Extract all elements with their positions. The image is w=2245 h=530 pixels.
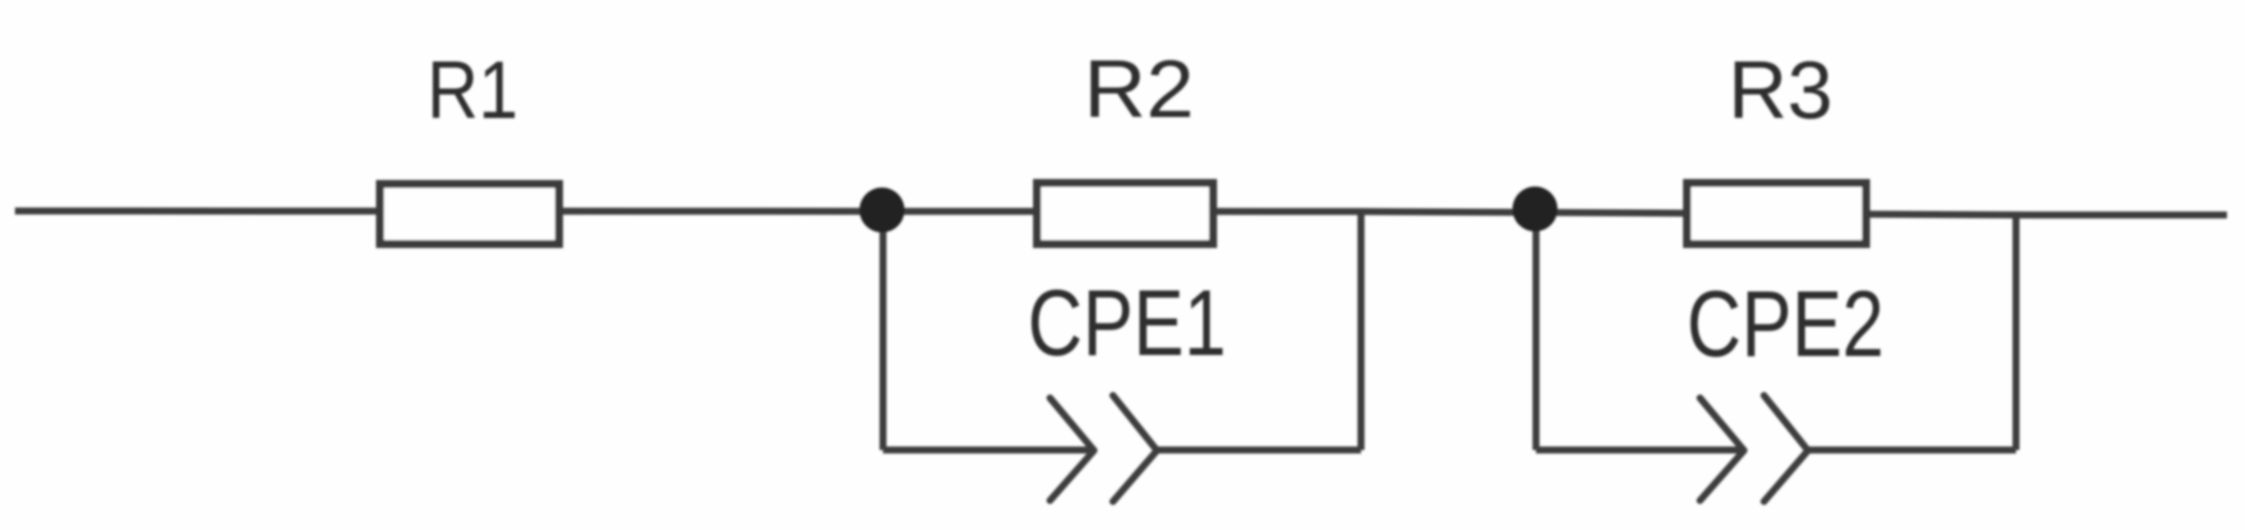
node A junction dot [860,188,905,233]
CPE CPE1 chevron 2 [1113,396,1157,502]
resistor R2 [1037,183,1213,244]
wire branch2 bottom left segment [1536,447,1744,454]
wire main horizontal [15,211,2227,215]
CPE CPE2 chevron 2 [1764,396,1808,502]
node B junction dot [1513,187,1558,232]
wire branch1 left vertical (node A down) [880,211,887,450]
resistor R1 [380,184,559,244]
CPE CPE2 chevron 1 [1700,398,1744,501]
svg-text:R2: R2 [1084,43,1194,134]
svg-text:CPE1: CPE1 [1028,271,1227,375]
svg-text:R1: R1 [427,44,518,136]
wire branch1 bottom right segment [1157,447,1361,454]
wire branch2 right vertical [2013,215,2020,450]
wire branch2 left vertical (node B down) [1533,211,1540,450]
resistor R3 [1687,183,1866,244]
wire branch1 bottom left segment [883,447,1094,454]
svg-text:R3: R3 [1728,45,1833,136]
CPE CPE1 chevron 1 [1050,398,1094,501]
wire branch1 right vertical [1358,212,1365,451]
svg-text:CPE2: CPE2 [1687,272,1884,377]
wire branch2 bottom right segment [1808,447,2016,454]
